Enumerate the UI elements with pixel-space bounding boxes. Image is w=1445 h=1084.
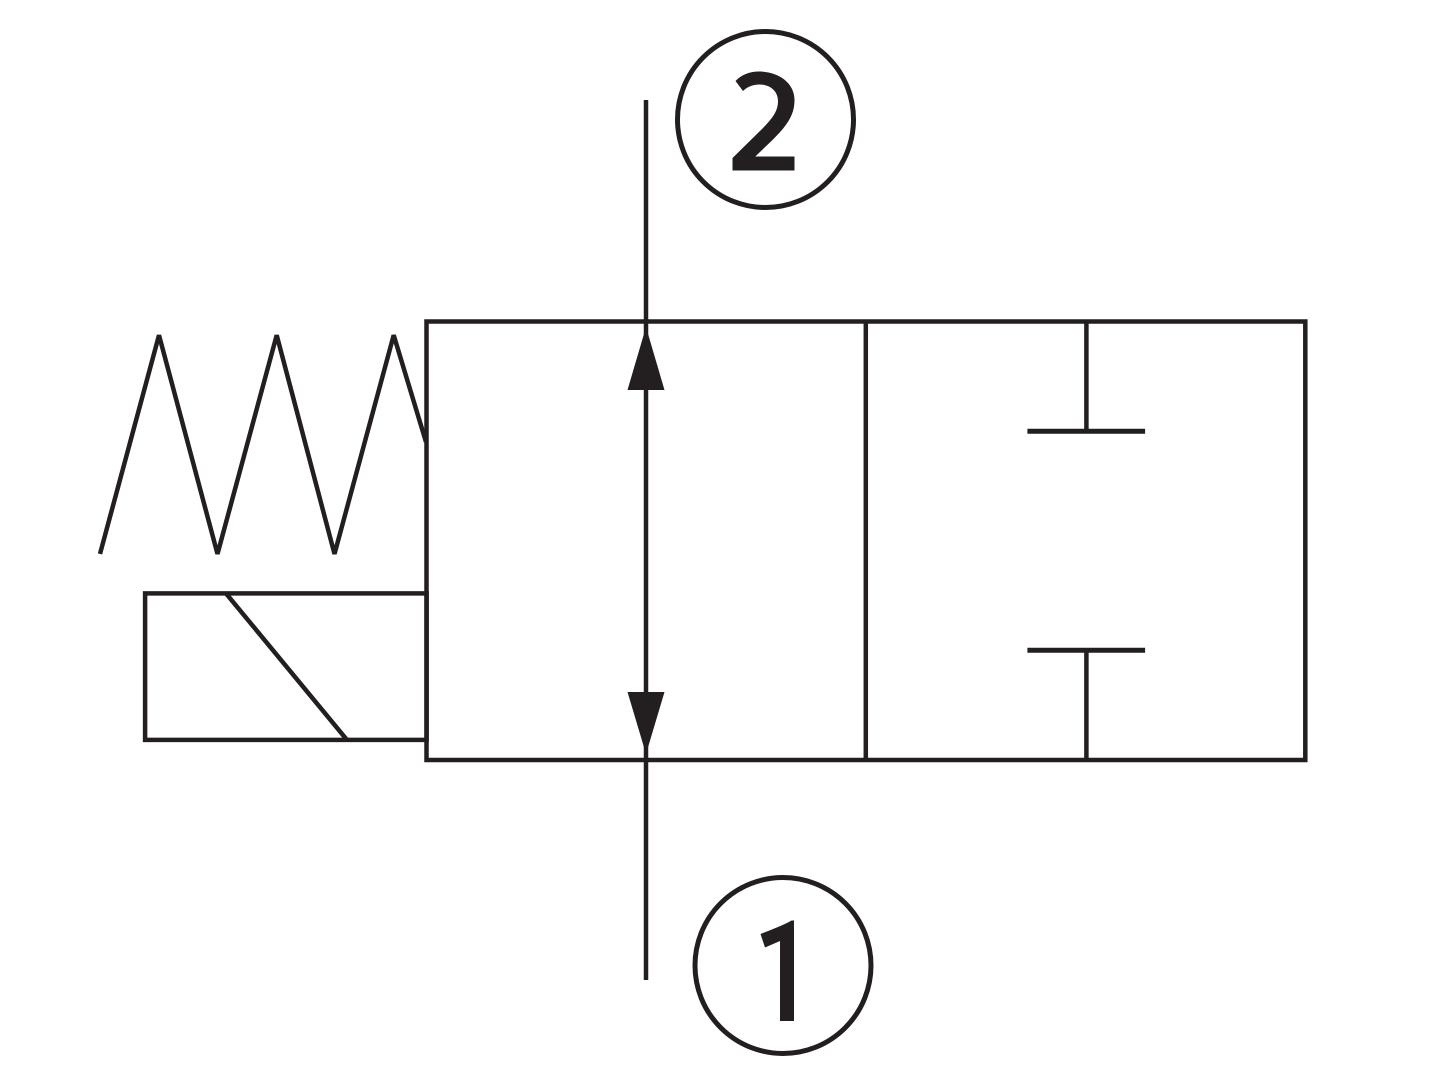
wire port 2 xyxy=(644,100,649,322)
solenoid box xyxy=(145,593,427,740)
port circle 2 xyxy=(678,32,854,208)
solenoid diagonal xyxy=(226,593,347,740)
port label 1 xyxy=(761,921,795,1022)
valve body outline xyxy=(427,322,1306,761)
closed port stub top xyxy=(1084,322,1089,432)
flow arrow shaft xyxy=(644,322,649,761)
closed port stub bottom xyxy=(1084,650,1089,760)
flow arrow head down xyxy=(628,692,665,754)
position divider xyxy=(864,322,869,761)
spring xyxy=(100,335,426,554)
wire port 1 xyxy=(644,760,649,980)
closed port bar top xyxy=(1027,429,1145,434)
port circle 1 xyxy=(695,878,871,1054)
flow arrow head up xyxy=(628,327,665,390)
closed port bar bottom xyxy=(1027,648,1145,653)
port label 2 xyxy=(733,72,795,171)
